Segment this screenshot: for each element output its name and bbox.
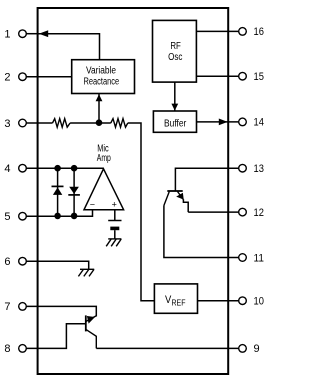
wire pin3 (26, 122, 52, 124)
diode D2 (cathode down) (69, 187, 79, 194)
pin 7 circle (19, 303, 27, 311)
pin 10 circle (239, 297, 247, 305)
RF oscillator box U3 (153, 20, 197, 82)
node dot pin5/D2 (71, 213, 78, 220)
Q2 base bar (167, 190, 182, 192)
op-amp U2 mic amp (84, 169, 124, 210)
wire RF osc to pin 16 (196, 30, 238, 32)
Q1 collector diagonal (86, 330, 96, 349)
node dot pin4/D1 (54, 165, 61, 172)
wire capacitor to ground (114, 230, 116, 239)
pin 8 circle (19, 345, 27, 353)
wire buffer to pin 14 (197, 121, 239, 123)
pin 16 circle (239, 28, 247, 36)
ground (below C1) (106, 239, 121, 246)
svg-text:Reactance: Reactance (83, 77, 119, 88)
transistor Q1 (86, 315, 97, 348)
arrowhead into pin 1 (39, 30, 48, 37)
diode D1 (cathode up) (52, 185, 64, 187)
Q2 emitter diagonal (178, 192, 184, 200)
ground (pin 6) (78, 269, 94, 276)
pin 4 circle (19, 164, 27, 172)
pin 9 circle (239, 345, 247, 353)
svg-text:8: 8 (4, 343, 10, 355)
Q2 emitter step to pin 12 level (183, 199, 188, 212)
arrowhead into pin 14 (219, 119, 228, 126)
wire D2 branch vertical (73, 168, 75, 216)
wire R1 to R2 through node (70, 122, 111, 124)
wire pin1 stub (26, 33, 37, 35)
svg-text:5: 5 (4, 211, 10, 223)
wire vref to pin 10 (198, 300, 239, 302)
transistor Q2 (164, 191, 188, 212)
wire pin7 to Q1 emitter (26, 306, 96, 316)
wire pin6 to ground (26, 261, 88, 269)
wire node to variable reactance bottom (98, 94, 100, 123)
svg-text:6: 6 (4, 256, 10, 268)
Q2 emitter arrow (176, 193, 184, 200)
wire RF osc to pin 15 (196, 75, 238, 77)
vref box U5 (154, 284, 197, 313)
svg-text:10: 10 (254, 296, 264, 308)
wire pin4 to op-amp apex (26, 167, 103, 169)
pin 3 circle (19, 119, 27, 127)
pin 5 circle (19, 212, 27, 220)
wire Q1 collector to pin 9 (96, 347, 238, 349)
pin 13 circle (239, 164, 247, 172)
Q1 base bar (85, 315, 87, 331)
wire + input to capacitor (114, 210, 116, 221)
variable reactance box U1 (72, 60, 135, 94)
arrowhead into variable reactance (96, 94, 103, 101)
svg-text:Buffer: Buffer (164, 118, 187, 129)
svg-text:−: − (90, 200, 95, 210)
svg-text:16: 16 (254, 26, 264, 38)
arrowhead into buffer (171, 104, 178, 111)
svg-text:4: 4 (4, 163, 10, 175)
Q1 emitter arrow (87, 316, 95, 324)
resistor R2 (111, 119, 128, 128)
node dot pin4/D2 (71, 165, 78, 172)
svg-text:Amp: Amp (97, 153, 111, 164)
svg-text:RF: RF (170, 41, 181, 52)
IC package outline (38, 8, 229, 374)
wire pin1 to variable reactance top (38, 34, 100, 60)
svg-text:12: 12 (254, 207, 264, 219)
svg-text:7: 7 (4, 301, 10, 313)
resistor R1 (53, 119, 71, 128)
svg-text:11: 11 (254, 252, 264, 264)
pin 12 circle (239, 208, 247, 216)
pin 6 circle (19, 257, 27, 265)
svg-text:1: 1 (4, 29, 10, 41)
pin 14 circle (239, 118, 247, 126)
svg-text:13: 13 (254, 163, 264, 175)
svg-text:14: 14 (254, 117, 264, 129)
wire pin5 to inverting input (26, 210, 92, 217)
Q1 emitter diagonal (86, 316, 96, 322)
svg-text:Osc: Osc (168, 52, 182, 63)
wire Q2 collector to pin 11 (164, 206, 239, 258)
pin 1 circle (19, 30, 27, 38)
node dot pin5/D1 (54, 213, 61, 220)
wire D1 branch vertical (57, 168, 59, 216)
svg-text:+: + (112, 200, 117, 210)
pin 11 circle (239, 254, 247, 262)
node junction dot on pin3 line (96, 119, 103, 126)
svg-text:Variable: Variable (86, 65, 116, 76)
Q2 collector diagonal (164, 192, 169, 206)
pin 15 circle (239, 72, 247, 80)
svg-text:2: 2 (4, 72, 10, 84)
wire Q2 emitter to pin 12 (188, 211, 239, 213)
svg-text:15: 15 (254, 71, 264, 83)
pin 2 circle (19, 73, 27, 81)
capacitor C1 (108, 220, 121, 222)
svg-text:REF: REF (172, 298, 186, 307)
wire pin2 to variable reactance left (26, 76, 71, 78)
wire RF osc to buffer (174, 82, 176, 110)
svg-text:3: 3 (4, 118, 10, 130)
svg-text:9: 9 (254, 343, 260, 355)
buffer box U4 (153, 111, 196, 132)
wire pin13 to Q2 base (175, 168, 238, 191)
wire pin8 to Q1 base (26, 324, 86, 349)
wire R2 to vref vertical (128, 123, 155, 301)
